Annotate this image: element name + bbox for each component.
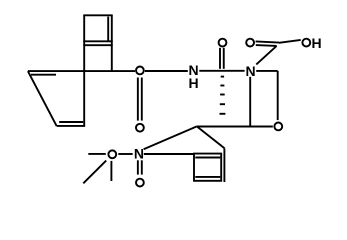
svg-text:H: H <box>312 35 322 51</box>
wire: left vertical bond x=83 from top square down through chain to lower-left ring bottom <box>83 15 85 126</box>
wire: top edge of top-left square ring <box>83 14 112 16</box>
wire: stereo hash dash 4 <box>220 103 225 105</box>
atom O ester <box>136 67 144 75</box>
svg-text:H: H <box>189 75 199 91</box>
wire: bottom edge of top square <box>83 40 112 42</box>
atom O ring <box>274 123 282 131</box>
atom O below ester <box>136 124 144 132</box>
wire: right vertical bond of top square down to main chain <box>111 15 113 71</box>
wire: lower square left edge <box>193 154 195 181</box>
wire: left slanted bond of cyclopentene ring <box>28 71 57 126</box>
wire: stereo hash dash 5 <box>220 113 226 115</box>
wire: bottom chain horizontal bond to ring O <box>197 126 273 128</box>
wire: carboxyl C=O line b <box>256 44 277 47</box>
wire: N=O double bond line b <box>141 160 143 174</box>
wire: N to lower square bond <box>144 153 193 155</box>
wire: O to N bond <box>118 153 132 155</box>
svg-text:N: N <box>246 63 256 79</box>
wire: N=O double bond line a <box>137 160 139 174</box>
atom O tert-butoxy <box>108 150 116 158</box>
wire: methyl diagonal bond lower-left of O <box>83 161 106 184</box>
wire: second parallel line below top square <box>83 44 112 46</box>
atom OH hydroxyl <box>302 39 310 47</box>
wire: inner double-bond line on right side of top square <box>107 17 109 42</box>
wire: diagonal bond from chain vertex to lower square corner <box>197 126 225 148</box>
wire: ester C=O double bond line b <box>141 78 143 121</box>
wire: top inner double-bond line of cyclopentene <box>31 74 56 76</box>
wire: lower square right edge <box>220 154 222 181</box>
wire: vertical bond right of lower square <box>223 148 225 182</box>
wire: methyl bond left of O <box>88 153 106 155</box>
wire: ester C=O double bond line a <box>137 78 139 121</box>
atom O carboxyl double-bonded <box>246 39 254 47</box>
wire: lower square inner bottom double-bond line <box>195 176 220 178</box>
wire: amide C=O double bond line a <box>219 48 221 69</box>
wire: stereo hash dash 3 <box>220 94 225 96</box>
wire: bottom inner double-bond line of cyclopentene <box>59 121 83 123</box>
wire: carboxyl C to ring N diagonal <box>256 46 276 65</box>
svg-text:N: N <box>134 146 144 162</box>
wire: lower square bottom edge <box>193 180 222 182</box>
wire: diagonal bond from chain vertex down to bottom N <box>144 126 197 149</box>
wire: stereo hash dash 2 <box>220 85 224 87</box>
wire: methyl vertical bond below O <box>110 161 112 181</box>
wire: main chain bond to ester O <box>28 70 135 72</box>
wire: ring left vertical bond below N <box>249 77 251 127</box>
wire: bond from amide N through carbonyl C to ring N <box>199 70 244 72</box>
atom O amide carbonyl <box>219 39 227 47</box>
wire: lower square top edge <box>193 153 222 155</box>
wire: bond from ester O to amide N <box>145 70 188 72</box>
wire: bottom outer bond of cyclopentene <box>57 125 86 127</box>
wire: carboxyl C=O line a <box>256 41 279 42</box>
wire: ring N to top-right corner bond <box>256 70 278 72</box>
wire: lower square inner top double-bond line <box>195 157 220 159</box>
wire: stereo hash dash 1 <box>221 76 224 78</box>
atom O nitroso oxygen <box>136 179 144 187</box>
wire: ring right vertical bond down to ring O <box>277 71 279 120</box>
wire: carboxyl C to OH bond <box>279 40 301 43</box>
wire: amide C=O double bond line b <box>223 48 225 69</box>
